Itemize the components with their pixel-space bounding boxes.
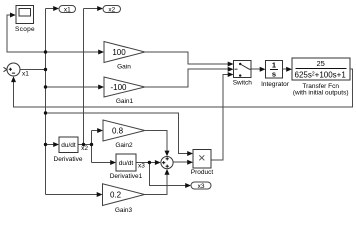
switch block Switch xyxy=(233,61,253,87)
svg-text:-100: -100 xyxy=(110,83,127,92)
arrow into Sum2 left xyxy=(155,160,161,165)
wire x1 to Product top input xyxy=(46,113,188,154)
goto oval x1 xyxy=(59,6,76,14)
svg-text:du/dt: du/dt xyxy=(119,160,134,167)
wire feedback Transfer Fcn to Sum1 xyxy=(14,69,353,107)
node x1-derivative xyxy=(44,143,47,146)
svg-text:x2: x2 xyxy=(108,6,115,13)
svg-text:x1: x1 xyxy=(64,6,71,13)
arrow into Switch input3 xyxy=(228,72,234,77)
svg-text:x3: x3 xyxy=(138,162,145,169)
arrow into Scope xyxy=(10,13,16,18)
arrow into Switch input2 xyxy=(228,67,234,72)
arrow into Switch input1 xyxy=(228,62,234,67)
arrow into x2 oval xyxy=(97,6,103,11)
svg-text:du/dt: du/dt xyxy=(61,142,76,149)
Scope block xyxy=(15,6,35,33)
sum junction Sum1 xyxy=(4,63,30,77)
wire derivative output xyxy=(78,144,92,146)
svg-text:Switch: Switch xyxy=(233,80,253,87)
product block Product xyxy=(191,150,214,176)
wire x2dot branch vertical xyxy=(91,131,93,163)
svg-text:s: s xyxy=(272,70,276,79)
svg-text:x1: x1 xyxy=(22,70,29,77)
arrow into Derivative xyxy=(53,142,59,147)
wire Integrator to Transfer Fcn xyxy=(283,68,287,70)
svg-text:(with initial outputs): (with initial outputs) xyxy=(293,90,349,97)
arrow into x1 oval xyxy=(53,6,59,11)
wire Gain3 to Sum2 bottom xyxy=(145,175,168,195)
svg-text:Gain1: Gain1 xyxy=(116,98,134,105)
arrowheads xyxy=(10,6,292,197)
sum junction Sum2 xyxy=(161,157,173,169)
arrow into Gain xyxy=(98,50,104,55)
wire Sum2 output to Product xyxy=(173,161,188,163)
svg-text:0.8: 0.8 xyxy=(112,126,124,135)
svg-text:Gain2: Gain2 xyxy=(115,142,133,149)
arrow into Sum2 bottom xyxy=(165,169,170,175)
arrow into Sum1 bottom xyxy=(11,76,16,82)
wire Gain output to Switch input1 xyxy=(145,52,228,64)
arrow into Transfer Fcn xyxy=(286,67,292,72)
wire to x1 goto oval xyxy=(46,8,55,10)
goto oval x3 xyxy=(191,182,211,190)
node x1-sum1out xyxy=(44,68,47,71)
svg-text:Scope: Scope xyxy=(15,26,35,33)
svg-text:Derivative1: Derivative1 xyxy=(110,173,143,180)
wire to Gain xyxy=(46,51,99,53)
svg-text:Gain3: Gain3 xyxy=(115,207,133,214)
transfer fcn block xyxy=(292,58,350,97)
goto oval x2 xyxy=(103,6,121,14)
wire Switch to Integrator xyxy=(251,68,260,70)
wire x3 to oval xyxy=(149,163,185,186)
svg-text:1: 1 xyxy=(272,61,276,70)
junction dots xyxy=(44,50,151,164)
derivative block Derivative1 xyxy=(110,154,143,180)
wire to Derivative xyxy=(46,144,55,146)
wire x1 vertical bus xyxy=(45,9,47,195)
svg-text:100: 100 xyxy=(112,48,126,57)
svg-text:625s2+100s+1: 625s2+100s+1 xyxy=(295,70,347,79)
svg-text:0.2: 0.2 xyxy=(110,190,122,199)
wire to Gain1 xyxy=(46,86,99,88)
derivative block Derivative xyxy=(54,137,83,163)
svg-text:x3: x3 xyxy=(198,183,205,190)
node x1-gain1 xyxy=(44,85,47,88)
node x1-product xyxy=(44,111,47,114)
arrow into Gain2 xyxy=(97,128,103,133)
svg-text:Integrator: Integrator xyxy=(261,81,290,88)
wire sum1 output xyxy=(20,69,46,71)
wire to x2 goto oval xyxy=(84,8,98,10)
gain Gain1 (-100) xyxy=(104,77,145,105)
arrow into x3 oval xyxy=(185,183,191,188)
wire to Derivative1 xyxy=(92,162,111,164)
gain Gain (100) xyxy=(104,42,145,71)
svg-text:25: 25 xyxy=(317,59,325,68)
arrow into Gain1 xyxy=(98,85,104,90)
arrow into Integrator xyxy=(260,67,266,72)
wire to Gain3 xyxy=(46,194,98,196)
wire scope feed xyxy=(7,15,46,52)
wire to Gain2 xyxy=(92,130,98,132)
arrow into Product input2 xyxy=(187,160,193,165)
arrow into Gain3 xyxy=(97,192,103,197)
wire Derivative1 output to Sum2 left xyxy=(136,162,155,164)
node x3-branch xyxy=(148,161,151,164)
svg-text:x2: x2 xyxy=(81,145,88,152)
integrator block xyxy=(261,61,290,88)
svg-text:Product: Product xyxy=(191,169,214,176)
arrow into Product input1 xyxy=(187,151,193,156)
gain Gain3 (0.2) xyxy=(103,184,145,214)
arrow into Derivative1 xyxy=(110,160,116,165)
wire x2 vertical bus xyxy=(83,9,85,145)
wire Product output to Switch input3 xyxy=(211,75,228,161)
svg-text:Gain: Gain xyxy=(117,64,131,71)
node x1-scope xyxy=(44,50,47,53)
node x2-vertical xyxy=(82,143,85,146)
svg-text:Derivative: Derivative xyxy=(54,156,83,163)
arrow into Sum2 top xyxy=(165,151,170,157)
wire Gain2 to Sum2 top xyxy=(145,131,167,152)
wire Gain1 output to Switch input2 xyxy=(145,69,228,87)
gain Gain2 (0.8) xyxy=(103,120,145,149)
node x2dot-branch xyxy=(90,143,93,146)
